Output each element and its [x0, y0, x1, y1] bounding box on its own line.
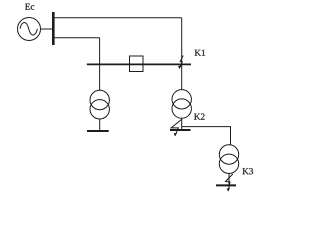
wire vertical down to transformer T1	[99, 38, 101, 91]
wire top branch vertical down to bus B and transformer T2	[181, 18, 183, 90]
label K1	[195, 50, 205, 56]
busbar A (vertical thick bus)	[52, 12, 55, 45]
wire generator to busbar	[41, 28, 53, 30]
label Ec (source EMF)	[25, 4, 34, 10]
wire top branch horizontal (bus A to line corner)	[54, 17, 182, 19]
fault marker K1 (lightning arrow)	[178, 56, 183, 69]
wire T2 to transformer T3 (horizontal then down)	[182, 127, 231, 145]
transformer T3 (two overlapping circles)	[219, 145, 238, 174]
fault marker K3 (lightning arrow)	[226, 174, 233, 191]
ground bar under T1	[87, 130, 109, 132]
label K3	[242, 168, 253, 174]
wire T2 to ground bar	[181, 118, 183, 130]
wire second branch horizontal (bus A toward T1)	[54, 37, 100, 39]
bus B (horizontal line with breaker)	[87, 63, 191, 65]
fault marker K2 (lightning arrow)	[171, 119, 182, 136]
label K2	[194, 114, 204, 120]
generator G (system source circle with sine)	[18, 18, 41, 41]
ground bar under T3	[216, 184, 236, 186]
breaker box on bus B	[130, 56, 144, 72]
ground bar under T2	[170, 129, 191, 131]
wire T3 to ground bar	[228, 174, 230, 186]
transformer T1 (two overlapping circles)	[90, 90, 109, 119]
wire T1 to ground bar	[99, 119, 101, 131]
transformer T2 (two overlapping circles)	[172, 90, 191, 119]
